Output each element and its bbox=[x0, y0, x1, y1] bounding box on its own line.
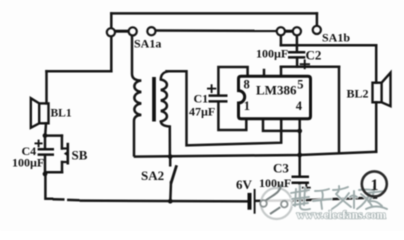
svg-text:100µF: 100µF bbox=[256, 47, 288, 61]
svg-text:SA1b: SA1b bbox=[322, 31, 350, 45]
svg-text:C1: C1 bbox=[194, 92, 209, 106]
svg-text:47µF: 47µF bbox=[189, 105, 215, 119]
svg-text:LM386: LM386 bbox=[256, 83, 297, 98]
svg-text:SA2: SA2 bbox=[141, 168, 164, 183]
svg-text:1: 1 bbox=[244, 99, 250, 113]
svg-text:8: 8 bbox=[244, 78, 250, 92]
svg-text:6V: 6V bbox=[236, 177, 253, 192]
svg-text:100µF: 100µF bbox=[12, 156, 44, 170]
svg-text:BL2: BL2 bbox=[347, 87, 369, 101]
svg-text:1: 1 bbox=[371, 177, 379, 194]
svg-text:BL1: BL1 bbox=[51, 108, 72, 120]
svg-text:C2: C2 bbox=[306, 48, 322, 63]
svg-text:C3: C3 bbox=[273, 161, 289, 176]
svg-text:4: 4 bbox=[296, 99, 303, 113]
svg-text:www.elecfans.com: www.elecfans.com bbox=[297, 210, 387, 222]
svg-text:SA1a: SA1a bbox=[134, 36, 161, 50]
svg-text:5: 5 bbox=[297, 78, 303, 92]
svg-text:SB: SB bbox=[72, 148, 88, 163]
